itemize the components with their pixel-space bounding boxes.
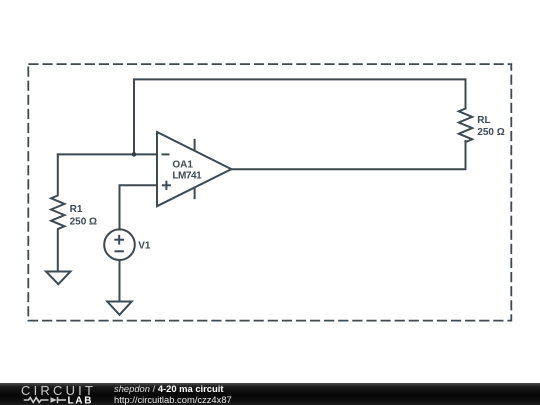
boundary dashed box (28, 64, 511, 321)
svg-text:R1: R1 (70, 204, 83, 215)
node A junction dot (132, 152, 137, 157)
wire feedback: node A up, across top, down to RL top (134, 79, 466, 154)
logo diode bar (57, 397, 59, 403)
svg-text:RL: RL (477, 115, 490, 126)
wire V1 minus terminal to ground (119, 260, 121, 302)
svg-text:250 Ω: 250 Ω (70, 216, 97, 227)
svg-text:OA1: OA1 (172, 160, 193, 171)
resistor RL (459, 109, 505, 143)
credit line 1: author and title (114, 384, 223, 394)
op-amp triangle body (157, 132, 231, 206)
wire V1 plus terminal to op-amp non-inverting input (120, 185, 158, 229)
V- power pin stub (194, 188, 196, 200)
svg-text:LAB: LAB (68, 396, 94, 405)
inverting input minus marker (162, 153, 170, 155)
footer bar (0, 383, 540, 405)
minus polarity marker (115, 250, 124, 252)
plus polarity marker (114, 235, 124, 245)
op-amp OA1 (157, 132, 231, 206)
credit line 2: url (114, 395, 232, 405)
svg-text:V1: V1 (138, 240, 151, 251)
wire R1 top to op-amp inverting input (58, 153, 157, 155)
svg-text:250 Ω: 250 Ω (477, 127, 504, 138)
logo lead wire (58, 399, 66, 401)
ground below R1 (46, 272, 71, 285)
resistor R1 (51, 154, 97, 271)
voltage source V1 (104, 229, 151, 301)
logo diode triangle (51, 397, 58, 403)
svg-text:LM741: LM741 (172, 171, 202, 182)
ground below V1 (107, 302, 132, 315)
V1 circle body (104, 229, 135, 260)
wire op-amp output to RL bottom (231, 141, 465, 169)
V+ power pin stub (194, 139, 196, 151)
non-inverting input plus marker (162, 181, 171, 190)
CircuitLab logo (0, 383, 100, 405)
logo resistor squiggle (24, 398, 49, 403)
